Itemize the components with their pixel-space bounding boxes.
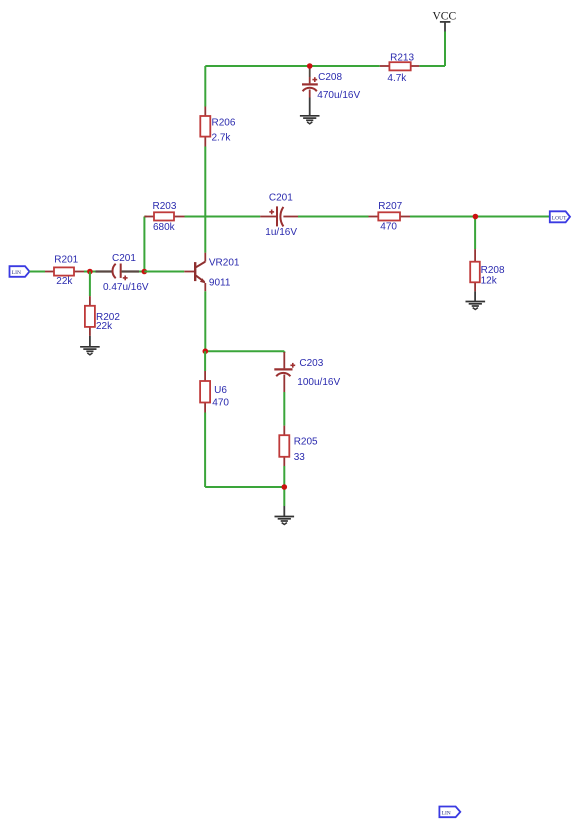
wire R205 down to node D [283,466,285,487]
junction dot node C [203,348,209,354]
svg-text:12k: 12k [481,275,498,286]
capacitor C208 [302,66,360,101]
svg-text:470: 470 [380,222,397,233]
wire R201 to node A [84,271,90,273]
resistor R202 [85,296,120,336]
wire mid row between C201 and R207 [298,216,369,218]
svg-text:R213: R213 [390,52,414,63]
svg-text:2.7k: 2.7k [212,133,232,144]
wire bottom row horizontal [205,486,284,488]
svg-text:C201: C201 [112,253,136,264]
junction dot node B [142,269,148,275]
svg-text:R203: R203 [153,201,177,212]
wire node A down to R202 [89,272,91,297]
ground below C208 [300,98,320,124]
svg-text:LIN: LIN [442,810,451,816]
wire vertical from R203 left down to input node [143,217,145,272]
wire from mid row down to R208 [474,217,476,250]
resistor R205 [279,426,318,466]
svg-text:C203: C203 [299,358,323,369]
svg-text:680k: 680k [153,222,176,233]
svg-text:22k: 22k [56,276,73,287]
wire top right to VCC riser [419,65,445,67]
wire node C down to U6 [204,351,206,371]
wire emitter down to node C [204,291,206,351]
svg-text:1u/16V: 1u/16V [265,227,297,238]
ground below R202 [80,336,100,355]
resistor R213 [380,52,420,84]
wire node A to node B (under C201b) [90,271,144,273]
svg-text:VCC: VCC [433,11,457,23]
port LOUT [550,211,570,222]
svg-text:R205: R205 [294,436,318,447]
power port VCC [433,11,457,32]
wire top horizontal net VCC row [205,65,379,67]
svg-text:33: 33 [294,452,306,463]
svg-text:LIN: LIN [12,270,21,276]
wire R206 down to collector [204,147,206,253]
svg-text:C208: C208 [318,72,342,83]
svg-text:100u/16V: 100u/16V [297,377,340,388]
capacitor C201 (1u/16V) [260,193,298,239]
wire mid row from R207 to LOUT [410,216,550,218]
junction dot mid row / R208 [473,214,479,220]
svg-text:470: 470 [212,397,229,408]
wire node D down to ground [283,487,285,506]
resistor R203 [144,201,184,233]
resistor R206 [200,107,236,147]
capacitor C203 [274,352,340,392]
svg-text:LOUT: LOUT [552,215,567,221]
transistor VR201 9011 [184,253,240,292]
svg-text:R201: R201 [54,255,78,266]
ground bottom [275,506,295,525]
wire LIN to R201 [30,271,46,273]
svg-text:9011: 9011 [209,278,231,289]
port LIN (bottom right) [439,807,460,818]
svg-text:22k: 22k [96,321,113,332]
svg-text:4.7k: 4.7k [387,73,407,84]
port LIN (left input) [10,266,30,277]
junction dot node A [87,269,93,275]
capacitor C201 (0.47u/16V) [96,253,149,293]
wire mid row horizontal [144,216,146,218]
junction dot at C208 top [307,63,313,69]
wire VCC riser vertical [444,32,446,67]
junction dot node D [282,484,288,490]
wire node B to transistor base [144,271,184,273]
svg-text:U6: U6 [214,385,227,396]
resistor R207 [369,201,411,232]
svg-text:0.47u/16V: 0.47u/16V [103,282,149,293]
svg-text:470u/16V: 470u/16V [317,90,360,101]
ground below R208 [466,291,486,309]
wire main vertical top (VCC row to R206) [204,66,206,107]
wire corner down to C203 [283,351,285,353]
wire U6 down to bottom row [204,413,206,488]
wire node C to C203 branch [205,350,284,352]
wire mid row between R203 and C201 [185,216,261,218]
svg-text:C201: C201 [269,193,293,204]
svg-text:R206: R206 [212,118,236,129]
resistor R201 [45,255,84,287]
svg-text:R207: R207 [378,201,402,212]
resistor U6 [200,371,229,413]
wire C203 to R205 [283,392,285,426]
resistor R208 [470,249,505,291]
svg-text:VR201: VR201 [209,258,240,269]
